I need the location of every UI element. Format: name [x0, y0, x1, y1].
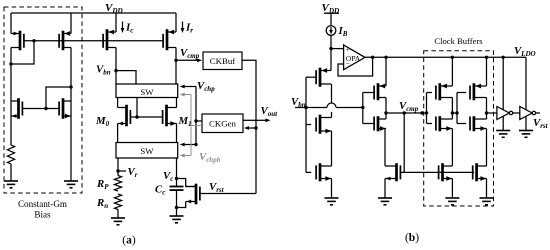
wire Vchp arrow SW2: [180, 143, 196, 147]
label Vout arrow: [243, 105, 278, 122]
node bias NMOS gate junction: [44, 107, 47, 110]
transistor bias NMOS right: [59, 98, 71, 119]
wire Vchpb arrow SW2: [180, 154, 191, 158]
transistor NB1: [316, 115, 331, 134]
node buffer1 input: [425, 111, 428, 114]
node buffer1 rail tap: [451, 56, 454, 59]
node CKGen feedback: [254, 126, 257, 129]
transistor buffer2 footer NMOS: [473, 163, 487, 181]
svg-text:Constant-Gm: Constant-Gm: [18, 199, 67, 209]
transistor mid NMOS: [374, 116, 386, 131]
wire SW1 to M0 drain: [117, 98, 119, 108]
node M0 gate: [135, 115, 138, 118]
ground left column (b): [325, 198, 339, 205]
node Vr: [116, 169, 119, 172]
wire CKGen feedback: [244, 126, 256, 130]
transistor Vrst reset NMOS: [186, 184, 200, 205]
ground bias left: [4, 181, 18, 188]
wire buffer1 PMOS riser: [451, 57, 453, 86]
wire SW1 to M1 drain: [176, 98, 178, 108]
wire buffer2 footer to ground: [486, 179, 488, 199]
wire bias left branch: [10, 13, 12, 145]
transistor buffer1 footer NMOS: [439, 163, 453, 181]
wire Vbn to SW1: [116, 71, 136, 84]
wire OPA output rail VLDO: [365, 56, 526, 58]
wire Vbn rail (b): [295, 103, 363, 108]
transistor buffer1 PMOS: [436, 83, 453, 100]
wire M0 source to SW2: [117, 124, 119, 143]
node buffer1 out: [451, 111, 454, 114]
label IB: [338, 25, 348, 38]
wire Vrst gate: [200, 193, 256, 195]
svg-text:Bias: Bias: [34, 210, 51, 220]
svg-text:SW: SW: [140, 146, 154, 156]
resistor bias Rb: [7, 145, 14, 164]
ground bias right: [64, 181, 78, 188]
wire mid footer source: [384, 179, 386, 199]
capacitor Cc: [170, 187, 184, 191]
label Ic with arrow: [121, 22, 135, 35]
wire Vchp arrow SW1: [180, 85, 196, 89]
svg-text:Clock Buffers: Clock Buffers: [434, 36, 483, 46]
node buffer2 input: [455, 111, 458, 114]
node OPA input: [329, 47, 332, 50]
svg-text:+: +: [346, 45, 350, 54]
wire NMOS gate line: [22, 108, 59, 110]
wire M0-M1 gate line: [130, 116, 162, 118]
label Ir with arrow: [181, 22, 194, 35]
wire Vbn vertical (b): [306, 77, 311, 172]
label Clock Buffers: [434, 36, 483, 46]
wire Ir source stub: [175, 13, 177, 32]
wire Vchp net: [196, 87, 202, 145]
wire mid NMOS source: [384, 129, 386, 167]
node Vbn: [114, 69, 117, 72]
clock buffers dashed box: [424, 51, 494, 206]
wire buffer1 out: [452, 112, 457, 114]
wire VLDO rail end down: [525, 57, 527, 110]
wire footer gate line: [400, 171, 474, 173]
block SW2: [116, 143, 178, 159]
node OPA feedback: [371, 56, 374, 59]
transistor bias NMOS left: [11, 98, 22, 119]
wire Vchpb net: [191, 95, 202, 156]
wire Ic source stub: [115, 13, 117, 32]
node buffer2 out: [485, 111, 488, 114]
wire SW2 to Vr: [117, 158, 119, 176]
ground Rn: [111, 218, 125, 225]
svg-text:(b): (b): [405, 232, 419, 244]
wire PB1 source riser: [330, 49, 332, 71]
wire buffer2 drain join: [486, 98, 488, 120]
label Vbn (b): [291, 96, 306, 109]
wire PB1 gate: [306, 76, 316, 78]
label Vr tap: [118, 166, 138, 179]
node bias PMOS gate junction: [32, 39, 35, 42]
wire buffer2 PMOS riser: [486, 57, 488, 86]
current source IB: [326, 26, 336, 36]
node mid PMOS rail: [384, 56, 387, 59]
node Vchp low: [194, 143, 197, 146]
wire Vrst drain: [177, 179, 197, 187]
svg-text:CKBuf: CKBuf: [210, 56, 235, 66]
transistor buffer2 PMOS: [470, 83, 487, 100]
wire M1 source to SW2: [176, 124, 178, 143]
wire buffer2 gate vertical: [457, 93, 466, 124]
ground buffer2: [480, 198, 494, 205]
resistor Rn: [114, 194, 121, 210]
wire mid PMOS riser: [385, 57, 387, 86]
node Vcmp (b): [384, 111, 387, 114]
node Vchp split: [194, 119, 197, 122]
label VLDO: [514, 45, 536, 58]
wire gate-drain tie right NMOS: [46, 87, 71, 109]
op-amp OPA: [344, 45, 365, 70]
label Rp: [96, 178, 109, 191]
node Vcmp box entry: [420, 111, 423, 114]
wire buffer2 out: [487, 112, 497, 114]
transistor bias PMOS right: [59, 31, 71, 51]
label Vrst (b): [533, 117, 549, 130]
node Vbn rail junction: [304, 106, 307, 109]
transistor PB1: [316, 68, 331, 87]
label Vc: [163, 170, 173, 183]
wire mid drain join: [385, 98, 387, 120]
wire Vchpb arrow SW1: [180, 93, 191, 97]
label Cc: [155, 184, 165, 197]
svg-text:−: −: [346, 59, 350, 68]
label M0: [95, 115, 110, 128]
wire PMOS gate line: [24, 40, 163, 42]
label (a): [122, 235, 136, 247]
wire bias right branch: [70, 13, 72, 116]
inverter INV1: [497, 107, 513, 120]
label VDD (a): [105, 2, 124, 15]
wire Vcmp out: [386, 112, 427, 114]
wire Rn to ground: [117, 210, 119, 219]
wire buffer1 drain join: [451, 98, 453, 120]
ground INV2: [519, 131, 533, 138]
transistor bias PMOS left: [11, 31, 24, 51]
node bias right drain: [69, 85, 72, 88]
block SW1: [116, 84, 178, 98]
wire Cc to ground: [176, 190, 178, 216]
wire VLDO to INV1: [502, 57, 504, 110]
transistor Ir PMOS: [163, 29, 176, 50]
wire SW2 to Vc: [176, 158, 178, 187]
node INV1 rail tap: [502, 56, 505, 59]
block CKGen: [202, 114, 243, 133]
resistor Rp: [114, 176, 121, 192]
ground buffer1: [445, 198, 459, 205]
node bias left drain-gate: [9, 62, 12, 65]
transistor M0: [118, 105, 131, 127]
ground mid column: [378, 198, 392, 205]
wire OPA feedback loop: [338, 57, 373, 76]
transistor mid PMOS: [374, 83, 386, 100]
label Constant-Gm Bias: [18, 199, 67, 220]
node footer gate tap: [403, 111, 406, 114]
wire VDD stub (b): [330, 13, 332, 26]
transistor buffer1 NMOS: [436, 116, 453, 131]
wire Vcmp to CKBuf: [176, 58, 202, 62]
wire mid NMOS gate: [363, 123, 374, 125]
wire INV1 to ground: [502, 116, 504, 130]
wire Ic drain down: [115, 48, 117, 85]
wire INV1 to INV2: [513, 112, 520, 114]
label (b): [405, 232, 419, 244]
node Cc ground junction: [175, 206, 178, 209]
wire buffer1 footer to ground: [451, 179, 453, 199]
node Vcmp (a): [174, 59, 177, 62]
wire buffer2 NMOS source: [486, 129, 488, 167]
wire to OPA plus: [331, 48, 344, 50]
transistor NB2 footer: [316, 163, 331, 181]
wire Rb to ground: [10, 164, 12, 181]
wire INV2 out: [536, 112, 540, 114]
wire NB1 to NB2: [331, 131, 333, 166]
wire mid PMOS gate: [363, 92, 374, 94]
net VDD rail (a): [11, 12, 176, 14]
wire PB1 drain to NB1: [331, 84, 333, 118]
svg-text:(a): (a): [122, 235, 136, 247]
wire bias right to ground: [70, 116, 72, 181]
wire Vrst source: [177, 202, 186, 208]
wire buffer1 NMOS source: [451, 129, 453, 167]
label Rn: [96, 197, 108, 210]
transistor Ic PMOS: [103, 29, 116, 50]
wire Ir drain down: [175, 48, 177, 85]
transistor buffer2 NMOS: [470, 116, 487, 131]
constant-gm bias dashed box: [4, 7, 82, 193]
transistor M1: [163, 105, 177, 127]
label Vchpb: [199, 151, 221, 164]
inverter INV2: [520, 107, 536, 120]
wire gate-drain tie left PMOS: [11, 41, 34, 64]
label Vchp: [197, 80, 215, 93]
ground INV1: [496, 131, 510, 138]
label Vcmp (a): [180, 47, 200, 60]
label M1: [178, 115, 192, 128]
wire mid gate vertical: [362, 93, 364, 124]
block CKBuf: [203, 52, 242, 70]
wire IB to node: [330, 35, 332, 48]
node Vbn to gates riser: [361, 106, 364, 109]
wire footer gate riser: [403, 113, 405, 172]
wire buffer1 gate vertical: [427, 93, 433, 124]
transistor mid footer NMOS: [385, 163, 400, 181]
node buffer2 rail tap: [485, 56, 488, 59]
svg-text:SW: SW: [140, 87, 154, 97]
svg-text:CKGen: CKGen: [209, 119, 236, 129]
wire INV2 to ground: [525, 117, 527, 131]
wire gate riser to SW1: [136, 98, 138, 118]
label Vrst (a): [209, 181, 225, 194]
label VDD (b): [322, 2, 341, 15]
wire CKBuf output: [242, 60, 256, 193]
label Vbn (a): [96, 64, 111, 77]
ground Cc: [170, 216, 184, 223]
wire NB2 to ground: [331, 179, 333, 199]
node Vc: [175, 177, 178, 180]
label Vcmp (b): [399, 100, 419, 113]
